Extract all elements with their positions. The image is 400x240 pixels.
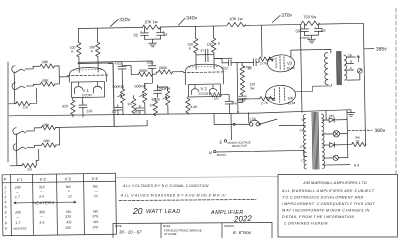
svg-text:V 3: V 3 (65, 176, 72, 181)
wire V1 grid in (59, 76, 69, 78)
svg-text:320: 320 (65, 226, 71, 230)
wire ch2 riser to V1 grid b (108, 63, 114, 126)
fuse 1.5A (249, 123, 252, 126)
svg-text:K: K (91, 49, 94, 53)
resistor R 2.7K (V3 grid stop) (259, 57, 273, 62)
svg-text:+: + (140, 30, 142, 34)
svg-text:+: + (82, 100, 84, 104)
wire N to transformer (216, 150, 307, 158)
svg-text:750 5w: 750 5w (303, 14, 316, 19)
wire (195, 53, 197, 70)
svg-text:50: 50 (248, 66, 252, 70)
svg-text:N/c: N/c (66, 185, 72, 189)
wire switch to transformer (279, 124, 305, 127)
wire V2 plate feed left (194, 26, 196, 38)
svg-text:ECC83: ECC83 (199, 92, 209, 96)
wire ch2 stub (214, 113, 234, 125)
valve V2 triode a (191, 85, 198, 94)
wire V1 plate feed left (77, 29, 79, 43)
speaker jack (357, 69, 362, 74)
node 370v (272, 15, 280, 22)
wire V4 plate to OT (295, 84, 331, 91)
svg-text:1m: 1m (23, 105, 28, 109)
resistor R 1M (input 1) (16, 101, 30, 106)
capacitor C 220 (V1 cathode bypass) (82, 98, 84, 104)
wire V3 grid (268, 58, 273, 61)
svg-text:32: 32 (133, 32, 138, 37)
resistor R 100K (V2 plate b) (211, 38, 216, 52)
wire bus drop (325, 111, 327, 120)
resistor R 680K (mixer 1) (138, 72, 152, 77)
svg-text:K: K (71, 50, 74, 54)
svg-text:50: 50 (295, 28, 300, 33)
svg-text:375: 375 (65, 215, 71, 219)
svg-text:mfd: mfd (329, 114, 334, 118)
svg-text:V3: V3 (287, 61, 293, 66)
capacitor C 50 (PI) (237, 61, 253, 63)
table heaters arrow (14, 201, 76, 204)
resistor R 820 (V1 cathode) (72, 98, 74, 100)
svg-text:+: + (301, 26, 303, 30)
svg-text:3·5: 3·5 (39, 221, 44, 225)
resistor R 1M (ch2 slope) (154, 98, 156, 101)
svg-text:680K: 680K (159, 66, 168, 70)
notes box (278, 175, 398, 238)
svg-text:-022: -022 (114, 61, 122, 65)
resistor R 68K (input 1b) (40, 82, 54, 87)
svg-text:250KW: 250KW (158, 87, 170, 91)
wire jack1B to 68K (26, 84, 40, 86)
svg-text:HEATERS: HEATERS (13, 226, 26, 230)
svg-text:D ETAIL F ROM T HE I NFORMA: D ETAIL F ROM T HE I NFORMATION (282, 215, 354, 219)
resistor R 1M (input 2) (22, 163, 36, 168)
svg-text:100: 100 (207, 43, 213, 47)
table col V1|V2 (32, 174, 35, 235)
wire tone top (157, 85, 167, 91)
wire 1M to border (9, 103, 16, 105)
svg-text:375: 375 (92, 214, 98, 218)
wire jack2 sleeve to 1M (16, 134, 22, 166)
svg-text:LT: LT (301, 158, 305, 162)
transformer OT core (336, 51, 341, 85)
svg-text:500KW: 500KW (134, 84, 146, 88)
svg-text:+: + (314, 26, 316, 30)
svg-text:K: K (218, 41, 221, 45)
capacitor C .01 (ch1) (117, 105, 119, 107)
svg-text:1·7: 1·7 (15, 195, 21, 199)
resistor R 1M (V2 out) (221, 94, 222, 96)
svg-text:9: 9 (5, 227, 7, 231)
resistor R 100K (V2 plate a) (193, 38, 198, 52)
svg-text:3: 3 (4, 195, 6, 199)
svg-text:68K: 68K (43, 139, 50, 143)
wire tap 16 (346, 56, 355, 58)
wire ch2 to grid run (59, 120, 147, 127)
capacitor C .0035 (156, 85, 158, 90)
wire V1 plate to coupling caps (78, 61, 152, 62)
svg-text:200: 200 (14, 186, 21, 190)
valve V1 triode a (74, 82, 82, 93)
svg-text:6-3: 6-3 (354, 163, 359, 167)
capacitor C 50uF (left) (303, 24, 305, 28)
valve V2 split line 2 (189, 65, 219, 68)
wire V2 plate feed right (212, 26, 214, 38)
svg-text:3w: 3w (250, 86, 255, 90)
wire tap 4 (347, 69, 354, 71)
node 320v (110, 19, 118, 26)
svg-text:C ONTAINED H EREIN.: C ONTAINED H EREIN. (284, 222, 329, 226)
resistor R 68K (input 2a) (41, 125, 55, 130)
wire jack1 sleeve to 1M (14, 72, 16, 104)
svg-text:2-7K: 2-7K (261, 101, 269, 105)
capacitor C .022 (coupling 2) (151, 61, 153, 65)
wire PI riser (236, 63, 239, 112)
transformer mains secondary (322, 114, 325, 169)
table col V3|V4 (83, 174, 86, 235)
wire bottom bus (9, 110, 347, 118)
title block bottom row (113, 223, 272, 224)
switch (259, 119, 277, 124)
svg-text:EL84: EL84 (287, 66, 295, 70)
svg-text:7: 7 (5, 216, 8, 220)
transformer OT primary (324, 52, 328, 84)
svg-text:N/c: N/c (93, 184, 99, 188)
wire jack2B to 68K (28, 145, 42, 147)
svg-text:4: 4 (4, 200, 6, 204)
wire (78, 57, 80, 73)
ground (HT centre) (347, 110, 351, 113)
wire V2 out riser (223, 95, 230, 101)
svg-text:V4: V4 (288, 96, 294, 101)
svg-text:16: 16 (348, 53, 352, 57)
right paper edge (395, 8, 397, 174)
input jack 1B (12, 83, 25, 90)
transformer mains primary (303, 114, 306, 169)
resistor R 2.7K (V4 grid stop) (260, 96, 274, 101)
svg-text:DRAWN: DRAWN (224, 224, 234, 228)
resistor R 68K (input 2b) (41, 143, 55, 148)
wire jack2A to 68K (26, 128, 41, 131)
capacitor C .022 (PI coupling) (214, 58, 222, 63)
resistor R (V2 cathode) (187, 97, 189, 98)
transformer mains core (312, 112, 319, 169)
terminal N (213, 150, 215, 152)
wire V4 grid (267, 97, 274, 98)
wire tap bottom (347, 74, 360, 81)
svg-text:T O C ONTINUOUS D EVELOPMENT: T O C ONTINUOUS D EVELOPMENT AND (282, 196, 364, 200)
valve V1 split line 2 (73, 69, 102, 72)
svg-text:N/c: N/c (93, 220, 99, 224)
svg-text:J IM M ARSHALL A MPLIFIERS: J IM M ARSHALL A MPLIFIERS L TD (302, 181, 367, 185)
resistor R 10K 1w (first dropper) (142, 25, 160, 30)
svg-text:2-7K: 2-7K (260, 62, 268, 66)
capacitor C 47 (across) (204, 49, 206, 61)
terminal E (224, 140, 226, 142)
node 340v (178, 18, 185, 25)
svg-text:N/c: N/c (93, 209, 99, 213)
wire (160, 26, 227, 27)
svg-text:SELECTOR: SELECTOR (232, 144, 248, 148)
svg-text:AT HOME: AT HOME (163, 232, 177, 236)
resistor R 100K (V1 plate b) (95, 42, 100, 56)
svg-text:=: = (68, 189, 70, 193)
potentiometer 500KW (vol 2) (142, 88, 147, 102)
svg-text:10K 1w: 10K 1w (229, 16, 243, 21)
svg-text:10: 10 (301, 117, 305, 121)
resistor R 120 3w (bias) (241, 79, 243, 82)
node 380v (348, 129, 372, 131)
svg-text:-022: -022 (146, 61, 154, 65)
svg-text:3·5: 3·5 (39, 195, 44, 199)
svg-text:385v: 385v (376, 46, 387, 52)
valve V2 triode b (209, 85, 216, 94)
svg-text:12: 12 (94, 194, 98, 198)
svg-text:A LL V ALUES M EASURED B Y: A LL V ALUES M EASURED B Y A VO M OD 8 M… (120, 194, 226, 198)
ground below 32+32 (152, 39, 154, 43)
svg-text:V 1: V 1 (17, 177, 23, 182)
svg-text:1m: 1m (27, 167, 32, 171)
svg-text:K: K (189, 46, 192, 50)
svg-text:30: 30 (355, 139, 359, 143)
svg-text:1m: 1m (127, 102, 132, 106)
capacitor C 32uF (right of pair) (159, 27, 161, 32)
wire joining 50+50 (305, 34, 319, 36)
table pin numbers (3, 186, 8, 231)
wire E stub (230, 113, 232, 139)
svg-text:6: 6 (5, 211, 7, 215)
left border (7, 62, 9, 162)
wire top B+ rail (78, 27, 142, 28)
svg-text:68K: 68K (42, 60, 49, 64)
svg-text:M AY I NCORPORATE M INOR C: M AY I NCORPORATE M INOR C HANGES IN (282, 209, 370, 213)
arrow speaker (357, 55, 360, 62)
wire join ch2 (56, 127, 60, 145)
notes body (281, 189, 375, 226)
input jack 2A (13, 128, 26, 135)
svg-text:240: 240 (299, 128, 304, 132)
svg-text:820: 820 (62, 104, 68, 108)
table frame (2, 173, 116, 236)
capacitor C 32uF (left of pair) (143, 27, 145, 32)
wire (256, 59, 259, 62)
svg-text:8-4K: 8-4K (190, 105, 198, 109)
wire V3 plate to OT (291, 49, 331, 57)
wire screen feed (260, 25, 263, 57)
svg-text:340v: 340v (186, 15, 197, 21)
table values V1 (13, 185, 27, 230)
lamp fuse (333, 131, 340, 138)
svg-text:K. 6’’Nov: K. 6’’Nov (233, 230, 252, 235)
diode D2 (323, 144, 330, 146)
svg-text:HEATERS: HEATERS (33, 200, 55, 205)
diode D1 (322, 119, 329, 121)
title block top line (116, 177, 278, 178)
svg-text:680K: 680K (139, 69, 148, 73)
table values V3 (65, 185, 73, 230)
svg-text:·—: ·— (94, 189, 99, 193)
valve V1 split line (67, 74, 108, 77)
svg-text:220: 220 (86, 109, 92, 113)
wire rectifier trunk (346, 110, 349, 158)
table values V2 (39, 185, 45, 225)
svg-text:12: 12 (68, 194, 72, 198)
svg-text:200: 200 (14, 211, 21, 215)
input jack 1A (12, 66, 25, 73)
wire plate rung (196, 54, 214, 56)
resistor R 68K (input 1a) (40, 64, 54, 69)
svg-text:E: E (219, 139, 222, 144)
svg-text:380v: 380v (374, 128, 385, 134)
input jack 2B (13, 144, 26, 151)
table col P (10, 175, 13, 236)
svg-text:DATE: DATE (115, 224, 122, 228)
capacitor C .01 (ch2) (139, 105, 141, 107)
svg-text:47: 47 (200, 49, 204, 53)
wire PI lower rung (238, 98, 260, 100)
svg-text:V 2: V 2 (200, 86, 207, 91)
valve V1 triode b (93, 82, 101, 93)
svg-text:4: 4 (350, 66, 352, 70)
valve V2 split line (183, 71, 225, 74)
svg-text:8: 8 (350, 60, 352, 64)
svg-text:1: 1 (4, 186, 6, 190)
svg-text:EL84: EL84 (288, 101, 296, 105)
svg-text:V 4: V 4 (92, 176, 99, 181)
svg-text:305: 305 (39, 210, 45, 214)
wire (122, 65, 138, 74)
resistor R 750 5w (301, 21, 319, 26)
svg-text:1m: 1m (149, 103, 154, 107)
resistor R 470K (PI grid leak a) (241, 63, 243, 66)
svg-text:4/S: 4/S (66, 220, 72, 224)
resistor R 1M (ch1 slope) (133, 96, 135, 99)
svg-text:’022: ’022 (221, 66, 228, 70)
wire (213, 52, 215, 69)
svg-text:2: 2 (3, 190, 6, 194)
svg-text:20: 20 (132, 206, 143, 216)
resistor R 100K (V1 plate a) (76, 42, 81, 56)
svg-text:N: N (209, 150, 212, 155)
svg-text:—: — (39, 215, 44, 219)
table col V2|V3 (56, 174, 59, 235)
svg-text:—: — (15, 190, 20, 194)
svg-text:I MPROVEMENT. C ONSEQUENTLY: I MPROVEMENT. C ONSEQUENTLY THIS UNIT (282, 202, 375, 206)
svg-text:68K: 68K (42, 79, 49, 83)
node 385v (364, 48, 374, 50)
wire bus to fuse (248, 113, 250, 123)
resistor R 30 6w (352, 142, 366, 147)
pilot lamp (333, 155, 338, 160)
potentiometer 500KW (vol 1) (122, 88, 124, 90)
svg-text:A LL V OLTAGES B Y N O S I: A LL V OLTAGES B Y N O S IGNAL C ONDITIO… (122, 184, 209, 188)
wire B+ trunk right (363, 23, 365, 145)
wire V1 plate feed right (96, 28, 98, 42)
wire L to fuse (235, 123, 249, 126)
wire (144, 68, 152, 88)
svg-text:10K 1w: 10K 1w (144, 19, 158, 24)
heater 6.3 (323, 164, 350, 166)
table header line (2, 181, 115, 183)
valve V2 ECC83 envelope (185, 64, 223, 85)
capacitor C 470uF (bias bypass) (242, 94, 244, 97)
valve V1 label box (71, 82, 104, 98)
svg-text:68K: 68K (43, 123, 50, 127)
svg-text:320v: 320v (119, 17, 130, 23)
wire mixer join to V2 grid (153, 72, 159, 74)
svg-text:WATT LEAD: WATT LEAD (146, 209, 181, 215)
transformer OT secondary (344, 55, 347, 80)
wire joining 32+32 (145, 38, 161, 40)
potentiometer 250KW (tone) (165, 91, 170, 105)
svg-text:500KW: 500KW (112, 85, 124, 89)
wire (245, 24, 301, 25)
svg-text:—: — (39, 190, 44, 194)
wire jack1A to 68K (25, 66, 40, 69)
svg-text:P: P (4, 177, 7, 182)
valve V3 EL84 (267, 55, 294, 72)
svg-text:MAINS: MAINS (217, 153, 226, 157)
table values V4 (92, 184, 100, 229)
capacitor C 50uF (right) (317, 24, 319, 28)
capacitor C .022 (coupling 1) (121, 62, 123, 66)
svg-text:370v: 370v (281, 13, 292, 19)
svg-text:1·7: 1·7 (15, 221, 21, 225)
svg-text:8: 8 (5, 221, 7, 225)
svg-text:5: 5 (4, 205, 6, 209)
svg-text:V 2: V 2 (40, 177, 47, 182)
svg-text:N/c: N/c (66, 210, 72, 214)
wire tap 8 (347, 62, 354, 64)
svg-text:ECC83: ECC83 (82, 93, 92, 97)
svg-text:+: + (162, 29, 164, 33)
ground below 50+50 (311, 35, 313, 39)
underline (119, 200, 256, 201)
svg-text:370: 370 (92, 225, 98, 229)
svg-text:50: 50 (321, 28, 326, 33)
svg-text:—: — (15, 215, 20, 219)
svg-text:250mfd: 250mfd (300, 36, 310, 40)
valve V2 label box (188, 84, 220, 97)
svg-text:MAKE: MAKE (163, 224, 171, 228)
capacitor C 25uF (225, 101, 233, 104)
svg-text:1m: 1m (214, 96, 219, 100)
wire 1M to border (10, 165, 22, 167)
resistor R 10K 1w (second dropper) (227, 22, 245, 27)
wire join to V1 grid (54, 66, 59, 84)
svg-text:-01: -01 (134, 110, 139, 114)
valve V1 ECC83 envelope (69, 67, 106, 82)
svg-text:115: 115 (300, 144, 305, 148)
resistor R 680K (mixer 2) (158, 70, 172, 75)
wire HT feed down (300, 24, 302, 112)
wire V2 plate out (214, 57, 232, 59)
svg-text:A LL M ARSHALL A MPLIFIERS: A LL M ARSHALL A MPLIFIERS ARE S UBJECT (281, 189, 375, 193)
svg-text:30 - 10 - 67: 30 - 10 - 67 (119, 230, 142, 235)
valve V4 EL84 (265, 85, 295, 105)
svg-text:315: 315 (39, 185, 45, 189)
wire (319, 22, 363, 25)
wire (97, 57, 99, 73)
svg-text:1.5A: 1.5A (249, 117, 257, 121)
